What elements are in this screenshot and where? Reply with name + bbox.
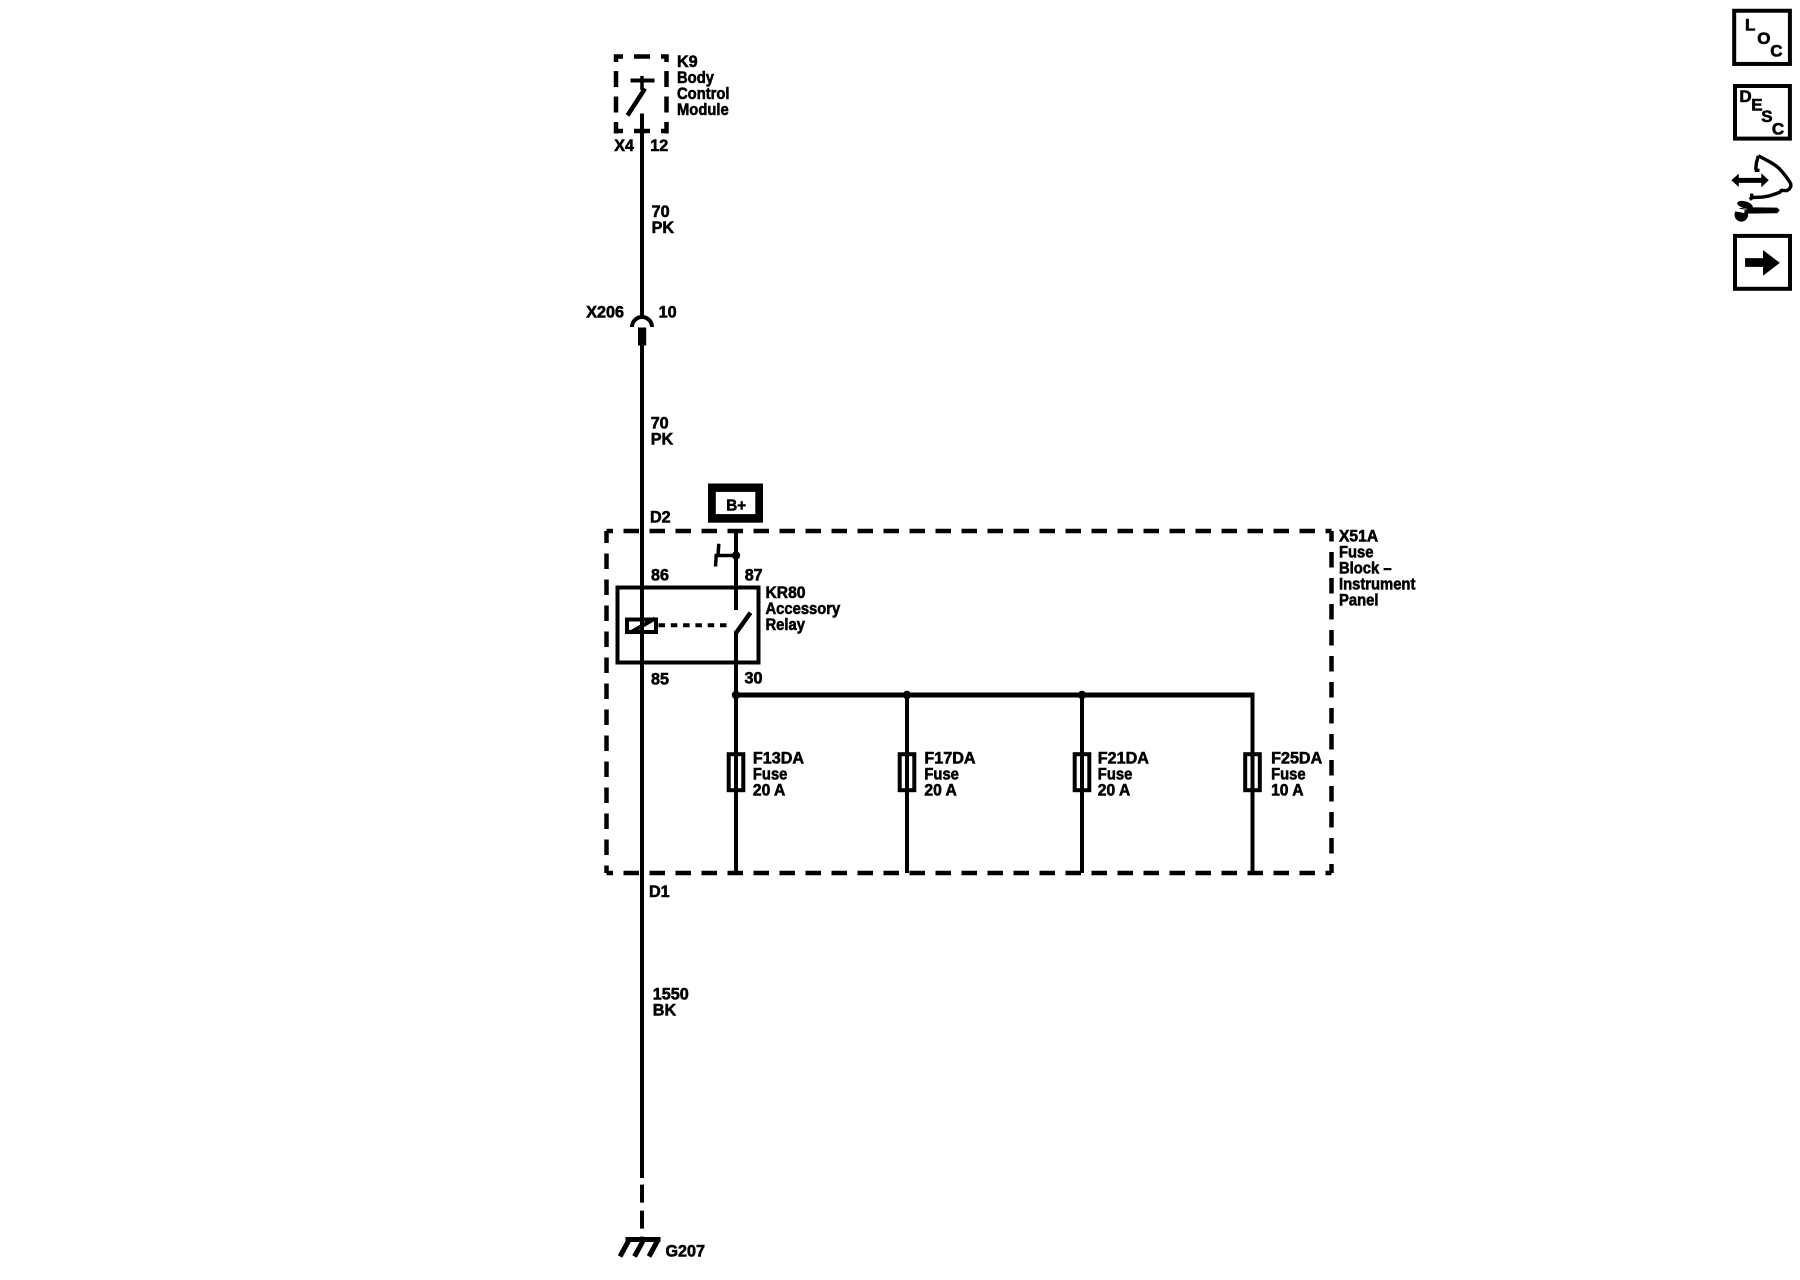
svg-text:X4: X4 (614, 136, 635, 155)
icon LOC box (1734, 11, 1790, 64)
svg-text:O: O (1757, 29, 1770, 48)
svg-text:D: D (1739, 87, 1751, 106)
wire drop to fuse F21DA (1080, 695, 1084, 873)
svg-text:20 A: 20 A (924, 781, 957, 800)
svg-text:Module: Module (677, 101, 729, 119)
relay actuation dashed linkage (659, 623, 732, 627)
wire label 70 PK (upper) (652, 202, 674, 237)
label fuse F21DA Fuse 20 A (1098, 748, 1149, 800)
wire drop to fuse F25DA (1251, 693, 1255, 874)
wire B+ feed to relay terminal 87 (734, 533, 738, 610)
relay switch blade (736, 613, 751, 633)
svg-text:D1: D1 (649, 882, 670, 901)
wire label 1550 BK (653, 984, 689, 1019)
junction dot at F21DA branch (1078, 691, 1086, 699)
svg-text:X206: X206 (586, 302, 624, 321)
svg-text:20 A: 20 A (1098, 781, 1131, 800)
icon pointer outline (1750, 156, 1791, 200)
svg-text:BK: BK (653, 1000, 676, 1019)
icon arrow box (1735, 236, 1790, 289)
svg-text:D2: D2 (650, 507, 671, 526)
connector X206 symbol (632, 317, 652, 346)
icon wrench (1734, 199, 1780, 221)
svg-text:85: 85 (651, 669, 669, 688)
svg-text:10 A: 10 A (1271, 781, 1304, 800)
svg-text:30: 30 (745, 668, 763, 687)
B+ power feed box (708, 484, 763, 523)
svg-text:G207: G207 (666, 1241, 706, 1260)
fuse F17DA (900, 754, 915, 790)
wire 70 PK upper segment (640, 114, 644, 317)
svg-text:L: L (1745, 15, 1755, 34)
svg-text:12: 12 (650, 136, 668, 155)
svg-text:Panel: Panel (1339, 592, 1378, 610)
svg-text:B+: B+ (726, 497, 746, 514)
junction dot at F17DA branch (903, 691, 911, 699)
module K9 Body Control Module dashed box (614, 55, 669, 134)
dashed wire to ground (640, 1178, 644, 1240)
fuse F21DA (1075, 754, 1090, 790)
bus from terminal 30 to fuses (736, 693, 1253, 698)
junction dot at B+ feed (732, 551, 740, 559)
icon double arrow (1731, 173, 1769, 187)
relay coil (627, 619, 656, 633)
label fuse F13DA Fuse 20 A (753, 748, 804, 800)
svg-text:PK: PK (652, 218, 674, 237)
junction dot at 30 (732, 691, 740, 699)
ground symbol G207 (620, 1240, 661, 1257)
svg-text:87: 87 (745, 565, 763, 584)
fuse F25DA (1245, 754, 1260, 790)
wire drop to fuse F17DA (905, 695, 909, 873)
label K9 Body Control Module (677, 52, 730, 120)
relay KR80 box (618, 588, 759, 663)
label fuse F25DA Fuse 10 A (1271, 748, 1322, 800)
wire 70 PK lower segment (640, 345, 644, 1178)
relay label KR80 Accessory Relay (766, 583, 841, 634)
label fuse F17DA Fuse 20 A (924, 748, 975, 800)
wire label 70 PK (lower) (651, 413, 673, 448)
svg-text:Relay: Relay (766, 616, 806, 634)
svg-text:20 A: 20 A (753, 781, 786, 800)
fuse F13DA (729, 754, 744, 790)
fusible element contact symbol (715, 544, 737, 567)
svg-text:10: 10 (659, 302, 677, 321)
svg-text:86: 86 (651, 565, 669, 584)
icon DESC box (1735, 86, 1790, 139)
svg-text:C: C (1772, 120, 1784, 139)
label X51A Fuse Block - Instrument Panel (1339, 527, 1416, 610)
svg-text:C: C (1770, 42, 1782, 61)
svg-text:PK: PK (651, 429, 673, 448)
switch inside K9 module (628, 76, 655, 116)
wire from relay 30 down through fuse F13DA (734, 631, 738, 873)
fuse block X51A dashed box (607, 531, 1332, 873)
